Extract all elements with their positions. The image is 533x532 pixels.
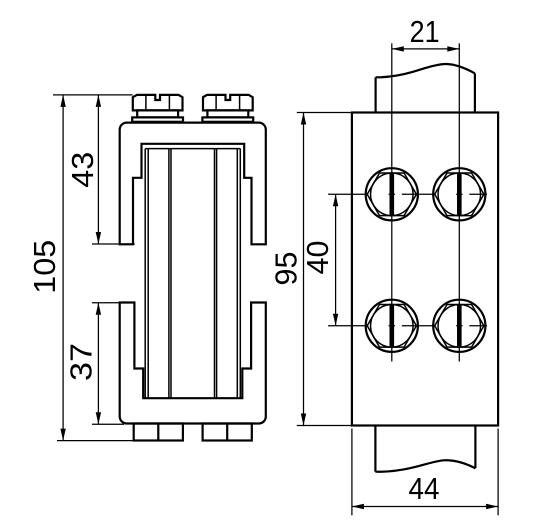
side view body rectangle — [352, 113, 498, 426]
extension line: 37 top — [92, 302, 135, 304]
screw end B slot — [457, 173, 462, 216]
screw S1 washer — [132, 117, 183, 121]
screw end A slot — [390, 173, 395, 216]
extension line: top of screws (105/43) — [53, 94, 133, 96]
extension line: 95 bottom — [297, 425, 352, 427]
side view busbar below body: right edge — [474, 426, 476, 469]
screw end C inscribed circle — [371, 305, 414, 348]
screw S2 washer — [202, 117, 253, 121]
busbar left fold line pair — [168, 149, 170, 399]
screw end C (lower left): outer circle — [366, 300, 418, 352]
screw end C slot — [390, 305, 395, 348]
busbar seen through front window: top edge — [145, 148, 240, 150]
screw end B inscribed circle — [438, 173, 481, 216]
extension line: 37 bottom — [92, 423, 124, 425]
svg-text:44: 44 — [409, 472, 440, 506]
dimension 95 line — [303, 113, 305, 426]
svg-text:105: 105 — [28, 240, 62, 294]
bottom mounting tabs left pair — [134, 424, 183, 441]
front view: upper body arm with side-opening feet — [120, 123, 266, 245]
centre line: left screw column vertical — [391, 43, 393, 361]
extension line: 44 left — [351, 429, 353, 516]
extension line: 95 top — [297, 112, 352, 114]
dimension 43 line — [97, 95, 99, 244]
screw S2 neck — [207, 110, 248, 117]
screw S1 hex facet lines — [145, 95, 147, 110]
side view busbar below body: left edge — [374, 426, 376, 472]
screw S1 neck — [137, 110, 178, 117]
svg-text:21: 21 — [410, 15, 440, 49]
side view busbar top break (wavy) line — [376, 64, 475, 77]
extension line: 43 bottom — [92, 243, 135, 245]
dimension 37 line — [97, 303, 99, 424]
screw S1 front: hex head with slot — [133, 95, 183, 111]
extension line: 105 bottom — [57, 440, 134, 442]
dimension 105 line — [62, 95, 64, 441]
busbar right chamfer line — [236, 149, 238, 399]
side view busbar above body: left edge — [375, 77, 377, 112]
side view busbar bottom break (wavy) line — [375, 460, 475, 472]
dimension 44 line — [352, 506, 498, 508]
screw end D slot — [457, 305, 462, 348]
screw end D (lower right): outer circle — [433, 300, 485, 352]
dimension 21 line — [392, 48, 460, 50]
busbar right outer edge — [239, 149, 241, 399]
screw S2 front: hex head with slot — [203, 95, 253, 111]
screw end A inscribed circle — [371, 173, 414, 216]
screw end B (upper right): outer circle — [433, 168, 485, 220]
screw S2 hex facet lines — [215, 95, 217, 110]
centre line: upper row horizontal — [328, 193, 487, 195]
svg-text:43: 43 — [66, 152, 100, 188]
screw end C hexagon — [367, 305, 416, 348]
screw end B hexagon — [435, 173, 484, 216]
svg-text:37: 37 — [65, 343, 99, 381]
screw end A hexagon — [367, 173, 416, 216]
bottom mounting tabs right pair — [203, 424, 252, 441]
busbar right fold line pair — [214, 149, 216, 399]
front view: lower body arm with cable channel steps — [120, 303, 266, 424]
dimension 40 line — [335, 194, 337, 325]
extension line: 44 right — [497, 429, 499, 516]
busbar left chamfer line — [147, 149, 149, 399]
svg-text:95: 95 — [270, 252, 304, 286]
side view busbar above body: right edge — [474, 73, 476, 112]
centre line: lower row horizontal — [328, 325, 487, 327]
svg-text:40: 40 — [301, 241, 335, 275]
screw end D hexagon — [435, 305, 484, 348]
busbar left outer edge — [144, 149, 146, 399]
screw end D inscribed circle — [438, 305, 481, 348]
screw end A (upper left): outer circle — [366, 168, 418, 220]
centre line: right screw column vertical — [458, 43, 460, 361]
